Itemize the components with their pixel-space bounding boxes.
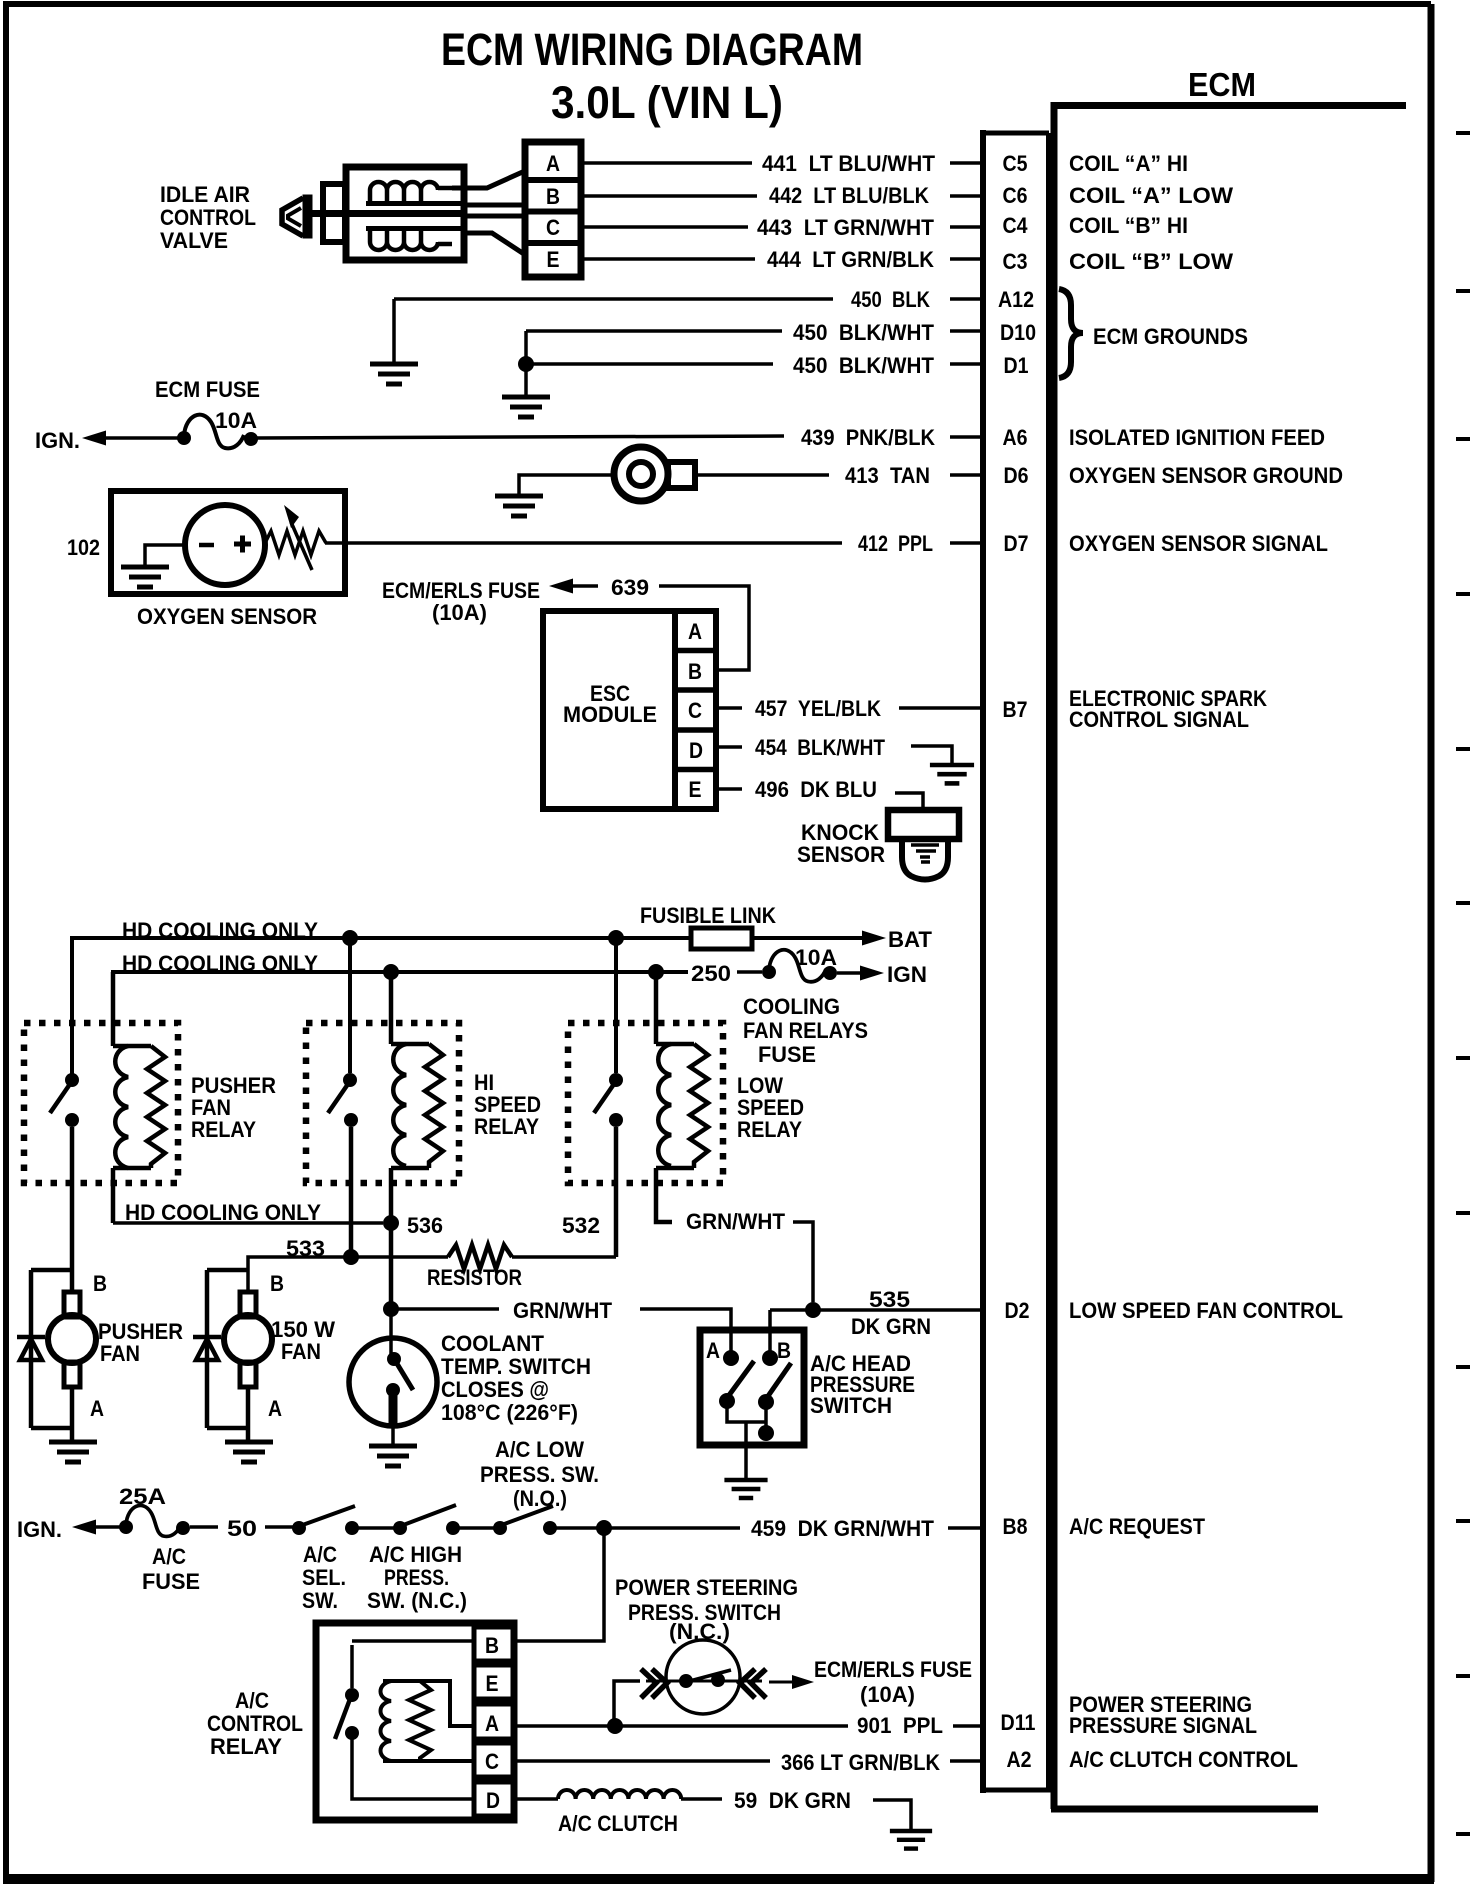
svg-text:D1: D1 [1004, 353, 1029, 378]
svg-text:D6: D6 [1004, 463, 1029, 488]
ground inside oxygen sensor box [145, 545, 185, 566]
ground lead of oxygen sensor ground [519, 475, 614, 495]
hi speed relay coil [391, 972, 443, 1309]
hi speed relay dotted box [306, 1023, 459, 1183]
coolant temp switch [349, 1338, 437, 1426]
svg-text:441 LT BLU/WHT: 441 LT BLU/WHT [762, 151, 936, 176]
svg-text:A/C CLUTCH CONTROL: A/C CLUTCH CONTROL [1069, 1747, 1298, 1772]
svg-text:COIL “A” HI: COIL “A” HI [1069, 151, 1188, 176]
wire GRN/WHT to A/C head pressure switch A [391, 1309, 731, 1352]
A/C low pressure switch [493, 1521, 507, 1535]
ECM connector pin column [980, 130, 1051, 1793]
A/C control relay pin E [474, 1665, 514, 1699]
svg-text:SW.: SW. [302, 1588, 338, 1613]
svg-text:454 BLK/WHT: 454 BLK/WHT [755, 735, 885, 760]
svg-text:B: B [546, 184, 560, 209]
ground for 450 BLK [392, 299, 396, 362]
svg-text:FAN: FAN [281, 1339, 321, 1364]
svg-text:444 LT GRN/BLK: 444 LT GRN/BLK [767, 247, 934, 272]
wire 901 PPL to pin D11 [622, 1724, 980, 1728]
svg-text:C: C [546, 215, 560, 240]
svg-text:IDLE AIR: IDLE AIR [160, 182, 250, 207]
svg-text:536: 536 [407, 1213, 443, 1238]
svg-text:B: B [485, 1633, 499, 1658]
IAC valve shaft [306, 210, 464, 217]
A/C clutch coil [558, 1790, 681, 1799]
svg-text:901 PPL: 901 PPL [857, 1713, 943, 1738]
svg-text:A12: A12 [998, 287, 1034, 312]
svg-text:E: E [486, 1671, 499, 1696]
svg-text:A/C LOW: A/C LOW [495, 1437, 584, 1462]
wire up to power steering switch [614, 1681, 640, 1726]
svg-text:D: D [689, 738, 703, 763]
arrow to IGN [82, 431, 106, 446]
ECM box [1051, 102, 1406, 1809]
svg-text:RESISTOR: RESISTOR [427, 1265, 522, 1290]
junction node A/C request [596, 1520, 612, 1536]
svg-text:ECM GROUNDS: ECM GROUNDS [1093, 324, 1248, 349]
IAC upper winding [366, 182, 461, 204]
A/C control relay box [316, 1623, 514, 1820]
wire 532 [512, 1255, 616, 1259]
svg-text:CLOSES @: CLOSES @ [441, 1377, 549, 1402]
svg-text:A2: A2 [1007, 1747, 1032, 1772]
svg-text:SWITCH: SWITCH [810, 1393, 892, 1418]
brace ECM grounds [1059, 289, 1083, 378]
wire 59 DK GRN [681, 1797, 722, 1801]
IAC lower winding [366, 229, 461, 251]
svg-text:OXYGEN SENSOR GROUND: OXYGEN SENSOR GROUND [1069, 463, 1343, 488]
svg-text:CONTROL: CONTROL [207, 1711, 303, 1736]
wire to A/C low press switch [458, 1526, 495, 1530]
svg-text:CONTROL SIGNAL: CONTROL SIGNAL [1069, 707, 1249, 732]
svg-text:A: A [485, 1711, 499, 1736]
svg-text:D10: D10 [1000, 320, 1036, 345]
wire 443 LT GRN/WHT to pin C4 [581, 225, 980, 229]
svg-text:B: B [777, 1338, 791, 1363]
wire 535 DK GRN to pin D2 [770, 1310, 980, 1352]
svg-text:535: 535 [869, 1287, 910, 1312]
svg-text:ISOLATED IGNITION FEED: ISOLATED IGNITION FEED [1069, 425, 1325, 450]
svg-text:VALVE: VALVE [160, 228, 228, 253]
svg-text:443 LT GRN/WHT: 443 LT GRN/WHT [757, 215, 935, 240]
oxygen sensor ground symbol [614, 447, 695, 501]
junction node low speed relay coil [648, 964, 664, 980]
svg-text:CONTROL: CONTROL [160, 205, 256, 230]
arrow to ECM/ERLS fuse [769, 1681, 794, 1684]
svg-text:OXYGEN SENSOR: OXYGEN SENSOR [137, 604, 317, 629]
arrow from 639 to ECM/ERLS fuse [549, 579, 573, 594]
ground for 454 BLK/WHT [930, 765, 974, 783]
junction node low speed relay switch [608, 930, 624, 946]
IAC valve pintle cone [282, 195, 312, 238]
A/C fuse 25A [119, 1520, 133, 1534]
svg-text:A/C REQUEST: A/C REQUEST [1069, 1514, 1205, 1539]
svg-text:COOLING: COOLING [743, 994, 840, 1019]
A/C control relay pin A [474, 1704, 514, 1739]
A/C high pressure switch [393, 1521, 407, 1535]
svg-text:SW. (N.C.): SW. (N.C.) [367, 1588, 467, 1613]
pusher fan relay switch [50, 1073, 79, 1292]
svg-text:A: A [90, 1396, 104, 1421]
svg-text:FUSIBLE LINK: FUSIBLE LINK [640, 903, 776, 928]
variable resistor in oxygen sensor [265, 531, 326, 555]
A/C control relay pin C [474, 1743, 514, 1777]
wire 444 LT GRN/BLK to pin C3 [581, 257, 980, 261]
junction node on D1 ground wire [518, 356, 534, 372]
svg-text:102: 102 [67, 535, 100, 560]
svg-text:459 DK GRN/WHT: 459 DK GRN/WHT [751, 1516, 935, 1541]
svg-text:50: 50 [227, 1516, 257, 1541]
wire 439 PNK/BLK to pin A6 [256, 436, 980, 438]
svg-text:A: A [546, 151, 560, 176]
svg-text:C: C [485, 1749, 499, 1774]
svg-text:E: E [689, 777, 702, 802]
svg-text:10A: 10A [215, 408, 257, 433]
junction node GRN/WHT [383, 1301, 399, 1317]
svg-text:COOLANT: COOLANT [441, 1331, 545, 1356]
wire 413 TAN to pin D6 [695, 473, 980, 477]
svg-text:D: D [486, 1788, 500, 1813]
svg-text:A6: A6 [1003, 425, 1028, 450]
svg-text:A: A [688, 619, 702, 644]
A/C head pressure switch contacts [719, 1350, 791, 1478]
wire relay D to A/C clutch [514, 1797, 558, 1801]
wire IAC to connector B [464, 203, 527, 208]
power steering pressure switch [641, 1640, 766, 1714]
svg-text:450 BLK/WHT: 450 BLK/WHT [793, 320, 935, 345]
svg-text:439 PNK/BLK: 439 PNK/BLK [801, 425, 935, 450]
ground for 59 DK GRN [873, 1800, 911, 1830]
wire 639 to ESC pin B [659, 586, 749, 670]
svg-text:PRESS. SW.: PRESS. SW. [480, 1462, 599, 1487]
svg-text:OXYGEN SENSOR SIGNAL: OXYGEN SENSOR SIGNAL [1069, 531, 1328, 556]
wire 441 LT BLU/WHT to pin C5 [581, 161, 980, 165]
svg-text:A/C: A/C [303, 1542, 337, 1567]
svg-text:C5: C5 [1003, 151, 1028, 176]
wire IGN feed (second) [113, 972, 688, 1044]
pusher fan motor [31, 1270, 96, 1442]
svg-text:C: C [688, 698, 702, 723]
svg-text:C6: C6 [1003, 183, 1028, 208]
A/C head pressure switch box [700, 1330, 804, 1445]
svg-text:B: B [93, 1271, 107, 1296]
wire 366 LT GRN/BLK to pin A2 [514, 1759, 980, 1763]
150W fan ground [225, 1442, 273, 1462]
A/C select switch [292, 1521, 306, 1535]
low speed relay switch [594, 938, 623, 1257]
svg-text:GRN/WHT: GRN/WHT [513, 1298, 613, 1323]
junction node hi speed relay switch [342, 930, 358, 946]
svg-text:A/C: A/C [152, 1544, 186, 1569]
svg-text:A/C CLUTCH: A/C CLUTCH [558, 1811, 678, 1836]
svg-text:A/C: A/C [235, 1688, 269, 1713]
svg-text:B: B [270, 1271, 284, 1296]
svg-text:IGN.: IGN. [35, 428, 80, 453]
wire IAC to connector E [464, 233, 527, 256]
IAC connector box A B C E [525, 142, 581, 277]
wire 450 BLK/WHT to pin D1 [526, 331, 980, 364]
svg-text:RELAY: RELAY [474, 1114, 539, 1139]
svg-text:RELAY: RELAY [210, 1734, 282, 1759]
svg-text:A/C HIGH: A/C HIGH [369, 1542, 462, 1567]
wire 450 BLK to pin A12 [394, 297, 980, 301]
svg-text:442 LT BLU/BLK: 442 LT BLU/BLK [769, 183, 929, 208]
oxygen sensor box [111, 491, 345, 594]
wire 50 [190, 1525, 295, 1529]
svg-text:(10A): (10A) [860, 1682, 915, 1707]
wire 412 PPL to pin D7 [325, 541, 980, 545]
hi speed relay switch [328, 938, 358, 1257]
svg-text:PRESSURE SIGNAL: PRESSURE SIGNAL [1069, 1713, 1257, 1738]
svg-text:D7: D7 [1004, 531, 1029, 556]
relay internal coil [381, 1681, 475, 1761]
pusher fan ground [49, 1442, 97, 1462]
svg-text:COIL “B” LOW: COIL “B” LOW [1069, 249, 1233, 274]
wire IAC to connector C [464, 214, 527, 219]
svg-text:TEMP. SWITCH: TEMP. SWITCH [441, 1354, 591, 1379]
150W fan motor [207, 1270, 272, 1442]
IAC valve body [346, 167, 464, 260]
svg-text:IGN.: IGN. [17, 1517, 62, 1542]
wire to junction [555, 1526, 597, 1530]
svg-text:ECM: ECM [1188, 66, 1256, 103]
wire IAC to connector A [452, 170, 527, 188]
low speed relay coil [656, 972, 708, 1222]
pusher fan relay dotted box [24, 1023, 178, 1183]
arrow to IGN bottom [72, 1520, 96, 1535]
svg-text:10A: 10A [795, 945, 837, 970]
svg-text:ECM WIRING DIAGRAM: ECM WIRING DIAGRAM [441, 24, 863, 75]
svg-text:SEL.: SEL. [302, 1565, 346, 1590]
junction node 533 [343, 1249, 359, 1265]
svg-text:COIL “A” LOW: COIL “A” LOW [1069, 183, 1233, 208]
svg-text:457 YEL/BLK: 457 YEL/BLK [755, 696, 881, 721]
svg-text:MODULE: MODULE [563, 702, 657, 727]
A/C control relay pin D [474, 1782, 514, 1816]
svg-text:PRESS.: PRESS. [384, 1565, 449, 1590]
150W fan diode [193, 1270, 221, 1428]
svg-text:BAT: BAT [888, 927, 933, 952]
svg-text:C3: C3 [1003, 249, 1028, 274]
wire relay A to 901 PPL junction [514, 1724, 608, 1728]
ground below junction [524, 364, 528, 396]
svg-text:366 LT GRN/BLK: 366 LT GRN/BLK [781, 1750, 940, 1775]
svg-text:LOW SPEED FAN CONTROL: LOW SPEED FAN CONTROL [1069, 1298, 1343, 1323]
fusible link element [691, 928, 752, 949]
knock sensor [888, 810, 959, 880]
wire 459 DK GRN/WHT to pin B8 [611, 1526, 980, 1530]
wire 457 YEL/BLK to pin B7 [716, 706, 980, 710]
svg-text:RELAY: RELAY [191, 1117, 256, 1142]
svg-text:B: B [688, 659, 702, 684]
junction node 536 [383, 1215, 399, 1231]
wire hd cooling to 536 junction [113, 1221, 383, 1225]
svg-text:59 DK GRN: 59 DK GRN [734, 1788, 851, 1813]
oxygen sensor source circle [185, 505, 265, 585]
svg-text:GRN/WHT: GRN/WHT [686, 1209, 786, 1234]
svg-text:IGN: IGN [887, 962, 927, 987]
ESC connector pins A-E [675, 611, 716, 809]
svg-text:SENSOR: SENSOR [797, 842, 885, 867]
wire 533 [248, 1257, 448, 1292]
pusher fan relay coil [113, 972, 165, 1223]
svg-text:A: A [268, 1396, 282, 1421]
svg-text:ECM FUSE: ECM FUSE [155, 377, 260, 402]
junction node 535 [805, 1302, 821, 1318]
coolant temp switch lead [389, 1309, 393, 1356]
wire to BAT [752, 936, 862, 940]
wire to IGN [837, 971, 860, 975]
svg-text:FUSE: FUSE [142, 1569, 200, 1594]
svg-text:E: E [547, 247, 560, 272]
A/C control relay pin B [474, 1627, 514, 1661]
svg-text:250: 250 [691, 961, 731, 986]
ECM fuse symbol 10A [177, 431, 191, 445]
svg-text:3.0L (VIN L): 3.0L (VIN L) [551, 77, 783, 128]
svg-text:532: 532 [562, 1213, 600, 1238]
svg-text:B7: B7 [1003, 697, 1028, 722]
svg-text:C4: C4 [1003, 213, 1029, 238]
svg-text:D11: D11 [1001, 1710, 1036, 1735]
svg-text:D2: D2 [1005, 1298, 1030, 1323]
wire junction to A/C control relay pin B [514, 1528, 604, 1641]
svg-text:ECM/ERLS FUSE: ECM/ERLS FUSE [814, 1657, 972, 1682]
svg-text:(10A): (10A) [432, 600, 487, 625]
svg-text:FAN RELAYS: FAN RELAYS [743, 1018, 868, 1043]
relay internal switch [335, 1641, 474, 1799]
svg-text:DK GRN: DK GRN [851, 1314, 931, 1339]
IAC valve collar [323, 184, 345, 242]
svg-text:RELAY: RELAY [737, 1117, 802, 1142]
svg-text:108°C (226°F): 108°C (226°F) [441, 1400, 578, 1425]
ESC module box [543, 611, 675, 809]
junction node 901 [607, 1718, 623, 1734]
svg-text:(N.O.): (N.O.) [513, 1486, 567, 1511]
low speed relay dotted box [568, 1023, 723, 1183]
svg-text:639: 639 [611, 575, 649, 600]
svg-text:412 PPL: 412 PPL [858, 531, 933, 556]
svg-text:450 BLK/WHT: 450 BLK/WHT [793, 353, 935, 378]
svg-text:B8: B8 [1003, 1514, 1028, 1539]
wire 454 BLK/WHT to ground [716, 746, 952, 764]
resistor [448, 1245, 512, 1269]
wire 442 LT BLU/BLK to pin C6 [581, 194, 980, 198]
svg-text:496 DK BLU: 496 DK BLU [755, 777, 877, 802]
wire 496 DK BLU to knock sensor [716, 789, 923, 810]
svg-text:COIL “B” HI: COIL “B” HI [1069, 213, 1188, 238]
cooling fan relays fuse 10A [762, 965, 776, 979]
svg-text:450 BLK: 450 BLK [851, 287, 930, 312]
junction node hi speed relay coil [383, 964, 399, 980]
svg-text:A: A [706, 1338, 720, 1363]
wire BAT feed (top) [72, 938, 691, 1076]
wire to A/C high press switch [357, 1526, 395, 1530]
pusher fan diode [17, 1270, 45, 1428]
wire 450 BLK/WHT to pin D10 [526, 329, 980, 333]
svg-text:FUSE: FUSE [758, 1042, 816, 1067]
coolant temp switch ground [391, 1424, 395, 1444]
A/C head pressure switch ground [724, 1480, 767, 1498]
svg-text:413 TAN: 413 TAN [845, 463, 930, 488]
svg-text:FAN: FAN [100, 1341, 140, 1366]
svg-text:POWER STEERING: POWER STEERING [615, 1575, 798, 1600]
wire 250 to fuse [737, 970, 762, 974]
